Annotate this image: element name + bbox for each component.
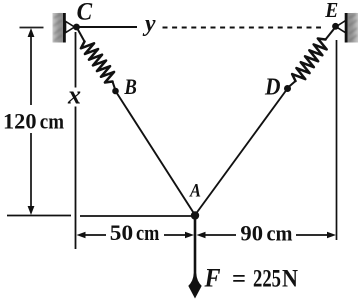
svg-text:N: N — [282, 265, 298, 292]
svg-text:cm: cm — [267, 221, 293, 246]
svg-text:120: 120 — [3, 108, 37, 133]
svg-text:50: 50 — [110, 220, 133, 245]
svg-text:225: 225 — [253, 265, 281, 292]
svg-text:B: B — [124, 74, 137, 99]
svg-text:A: A — [189, 181, 201, 202]
svg-text:E: E — [324, 0, 338, 22]
svg-text:90: 90 — [240, 221, 263, 246]
svg-text:x: x — [67, 81, 81, 110]
svg-text:y: y — [142, 11, 156, 37]
svg-text:=: = — [232, 265, 246, 292]
svg-text:F: F — [204, 263, 221, 292]
svg-text:D: D — [264, 75, 280, 101]
svg-text:cm: cm — [136, 220, 159, 245]
svg-text:C: C — [77, 0, 93, 26]
svg-text:cm: cm — [40, 108, 64, 133]
